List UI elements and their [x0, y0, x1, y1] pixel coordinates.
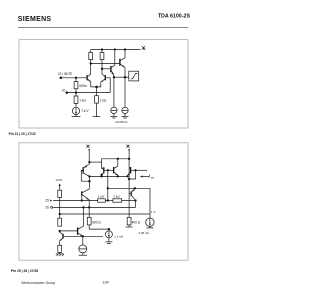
node T6 collector pin26	[83, 207, 85, 209]
VCC column lower	[59, 230, 61, 232]
resistor 1k second	[93, 96, 101, 117]
wire to limiter block	[114, 76, 129, 78]
svg-text:TDA 6100-2S: TDA 6100-2S	[158, 14, 191, 20]
transistor T2	[97, 69, 111, 93]
resistor R1	[89, 50, 93, 64]
header rule	[18, 27, 188, 29]
svg-text:600Ω: 600Ω	[79, 84, 87, 88]
svg-text:2x0.85mA: 2x0.85mA	[115, 120, 127, 124]
VCC terminal arrow	[59, 183, 61, 186]
node on T3 emitter line	[124, 76, 126, 78]
supply terminal S1 x-mark	[86, 145, 89, 148]
svg-text:7.6 V: 7.6 V	[81, 109, 89, 113]
right rail wire	[102, 159, 130, 168]
transistor TR of diff pair	[128, 167, 136, 176]
svg-text:20: 20	[62, 88, 66, 92]
transistor TL of diff pair	[114, 159, 118, 177]
f input arrow	[140, 176, 149, 178]
voltage source 7.6V	[72, 107, 81, 116]
svg-text:VCO: VCO	[56, 178, 63, 182]
wire node A to T3 base	[91, 63, 120, 65]
svg-text:SIEMENS: SIEMENS	[18, 16, 52, 23]
left rail wire	[89, 161, 101, 163]
resistor R2	[100, 49, 104, 69]
node long wire PNP3 emitter	[134, 188, 136, 190]
transistor PNP2	[101, 167, 113, 177]
current source CS2	[122, 107, 129, 118]
svg-text:1 kΩ: 1 kΩ	[100, 99, 107, 103]
wire common node down	[96, 87, 98, 96]
resistor 1k horizontal	[98, 199, 106, 202]
resistor 600 bottom	[87, 207, 91, 229]
svg-text:25: 25	[45, 199, 49, 203]
wire TR base to terminal f	[136, 169, 148, 171]
current source CS1	[110, 107, 117, 118]
node PNP1 emitter top	[89, 161, 91, 163]
transistor T4	[111, 49, 116, 107]
svg-text:2 kΩ: 2 kΩ	[113, 195, 120, 199]
wire node B to T4 base	[102, 68, 110, 70]
svg-text:1.1 mA: 1.1 mA	[114, 234, 123, 238]
transistor T6	[78, 207, 84, 236]
svg-text:Pin 25 | 26 | 27/28: Pin 25 | 26 | 27/28	[11, 269, 38, 273]
bottom schematic frame	[19, 143, 188, 260]
resistor Ra	[58, 190, 62, 218]
input line pin 20	[66, 92, 110, 94]
supply column S2	[128, 151, 130, 183]
node TL collector on rail	[117, 158, 119, 160]
top schematic frame	[19, 40, 188, 128]
node TR emitter	[127, 176, 129, 178]
1V line	[60, 213, 150, 215]
node long wire left	[107, 188, 109, 190]
resistor 1k first	[74, 93, 78, 108]
limiter block U1	[129, 71, 139, 81]
wire long line down to source	[149, 188, 151, 218]
resistor Rb	[58, 218, 62, 226]
transistor NPN3	[81, 189, 89, 208]
wire 2k to TR column	[122, 200, 136, 202]
node bases	[107, 170, 109, 172]
current source CS2b	[79, 236, 87, 255]
node TL emitter	[117, 176, 119, 178]
page background	[0, 0, 207, 292]
long bias wire	[108, 187, 150, 189]
svg-text:1 kΩ: 1 kΩ	[79, 99, 86, 103]
source circle right	[146, 218, 154, 228]
supply terminal S2 x-mark	[126, 145, 129, 148]
node NPN3 emitter pin26	[88, 207, 90, 209]
svg-text:400 Ω: 400 Ω	[132, 221, 141, 225]
resistor 600 ohm	[74, 78, 78, 93]
tail wire to diff pair	[89, 175, 127, 177]
wire 600 to CS1b	[89, 229, 109, 231]
transistor T3	[120, 49, 126, 107]
resistor T5 emitter	[58, 245, 62, 254]
wire pin25 node up from pin26	[135, 201, 137, 208]
input line pin 21	[60, 77, 87, 79]
node TR base	[135, 170, 137, 172]
wire VCC down	[59, 186, 61, 190]
svg-text:21 I IN/TE: 21 I IN/TE	[58, 72, 72, 76]
diode tie loop PNP1 base to collector	[81, 170, 89, 181]
wire TR base down to supply column	[129, 170, 135, 179]
resistor 2k horizontal	[113, 199, 122, 202]
node 1V line takeoff	[59, 213, 61, 215]
svg-text:600 Ω: 600 Ω	[92, 221, 101, 225]
wire to T6 base	[60, 230, 77, 232]
node T4 emitter	[113, 76, 115, 78]
pin 25 line	[53, 200, 97, 202]
transistor T5	[60, 231, 103, 245]
node PNP1 diode tie	[89, 180, 91, 182]
svg-text:130: 130	[102, 279, 109, 284]
wire PNP3 column to 400ohm	[128, 182, 130, 217]
current source CS1b	[105, 231, 112, 244]
supply terminal x-mark	[142, 46, 145, 49]
node B	[101, 68, 103, 70]
node CS2b takeoff	[82, 236, 84, 238]
node on supply column	[128, 178, 130, 180]
node A	[90, 63, 92, 65]
supply rail	[91, 49, 141, 51]
svg-text:Pin 21 | 20 | 17/22: Pin 21 | 20 | 17/22	[9, 132, 36, 136]
svg-text:1 kΩ: 1 kΩ	[98, 195, 105, 199]
ground hatched left	[56, 254, 64, 256]
wire 1k to 2k	[105, 200, 113, 202]
transistor T1	[87, 64, 96, 87]
node pin25 bases column	[107, 200, 109, 202]
transistor PNP3	[129, 189, 135, 201]
svg-text:0.38 mA: 0.38 mA	[139, 231, 150, 235]
node PNP1 collector / tail	[89, 176, 91, 178]
svg-text:Semiconductor Group: Semiconductor Group	[21, 281, 55, 285]
wire bases node down	[107, 170, 109, 200]
node S2 rail	[128, 158, 130, 160]
resistor 400	[126, 217, 133, 227]
wire S1 down	[88, 151, 90, 163]
common emitter node	[96, 86, 98, 88]
transistor PNP1	[83, 162, 89, 189]
node at TR column	[135, 200, 137, 202]
pin 26 line	[53, 206, 135, 208]
svg-text:26: 26	[45, 206, 49, 210]
